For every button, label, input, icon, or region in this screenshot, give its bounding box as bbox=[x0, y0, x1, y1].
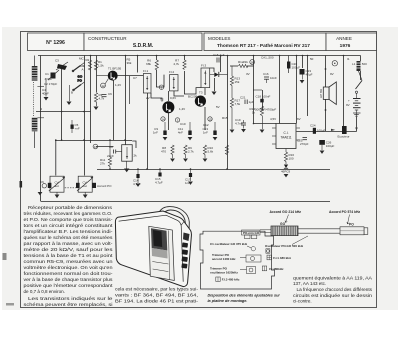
svg-text:2V: 2V bbox=[146, 96, 150, 100]
svg-text:C6: C6 bbox=[40, 180, 44, 184]
svg-text:de 0,7 à 0,8 environ.: de 0,7 à 0,8 environ. bbox=[24, 289, 65, 294]
svg-text:N° 1296: N° 1296 bbox=[46, 40, 65, 46]
svg-text:S.D.R.M.: S.D.R.M. bbox=[133, 43, 154, 49]
capacitor C5 bbox=[41, 107, 80, 133]
svg-text:50: 50 bbox=[310, 57, 314, 61]
wire vertical x96 bbox=[96, 56, 98, 93]
label trimmer PO oscillateur bbox=[210, 267, 256, 275]
diode 46PC9 bbox=[281, 162, 291, 174]
svg-text:4,7pF: 4,7pF bbox=[45, 77, 53, 81]
wire t1 collector to FI1 bbox=[118, 75, 144, 77]
radio tuning window bbox=[149, 226, 175, 280]
svg-text:schéma peuvent être remplacés,: schéma peuvent être remplacés, si bbox=[24, 302, 113, 307]
potentiometer P1 bbox=[122, 145, 137, 162]
svg-text:circuits est indiquée sur le d: circuits est indiquée sur le dessin bbox=[293, 293, 373, 298]
capacitor C24 bbox=[310, 124, 326, 134]
svg-text:PO: PO bbox=[349, 223, 354, 227]
ground under C23 bbox=[300, 80, 305, 83]
svg-text:Oscillateur PO.GO 500 kHz: Oscillateur PO.GO 500 kHz bbox=[265, 244, 304, 248]
svg-text:quement équivalente à AA 119,: quement équivalente à AA 119, AA bbox=[293, 275, 373, 280]
rod coil GO bbox=[271, 222, 298, 236]
svg-text:C6: C6 bbox=[108, 92, 112, 96]
capacitor C21 bbox=[240, 96, 254, 105]
resistor R1 bbox=[94, 60, 104, 70]
svg-text:39k: 39k bbox=[80, 64, 85, 68]
svg-text:R15: R15 bbox=[222, 116, 228, 120]
wire ic input line bbox=[254, 123, 277, 125]
wire volume to C8 bbox=[132, 141, 136, 148]
wire vertical x184 bbox=[184, 56, 186, 61]
svg-text:très réduites, recevant les ga: très réduites, recevant les gammes G.O. bbox=[24, 211, 113, 216]
radio cabinet drawing bbox=[115, 211, 191, 287]
wire detector line bbox=[96, 146, 114, 148]
wire vertical x325 speaker bbox=[325, 56, 327, 132]
resistor R8 bbox=[161, 145, 174, 158]
wire FI1 to T2 bbox=[151, 93, 162, 102]
ground under C13 bbox=[213, 137, 218, 140]
switch I1 bbox=[355, 81, 362, 94]
svg-text:L1: L1 bbox=[352, 62, 356, 66]
svg-text:C3: C3 bbox=[55, 59, 59, 63]
label PO min GO bbox=[242, 230, 261, 239]
svg-text:100µF: 100µF bbox=[317, 129, 326, 133]
diode D1 bbox=[210, 72, 228, 77]
resistor R13 bbox=[230, 66, 240, 86]
wire T1 collector branch bbox=[129, 76, 131, 104]
node N test point bbox=[332, 61, 337, 66]
svg-text:9V: 9V bbox=[346, 103, 350, 107]
title block text N 1296 bbox=[46, 36, 352, 49]
svg-text:5V: 5V bbox=[216, 105, 220, 109]
svg-text:TAA611: TAA611 bbox=[280, 136, 291, 140]
switch A bbox=[72, 57, 84, 72]
svg-text:C21: C21 bbox=[240, 96, 246, 100]
ground under CV2 bbox=[83, 192, 88, 198]
svg-text:oscillateur 1625kHz: oscillateur 1625kHz bbox=[210, 270, 238, 274]
svg-text:voltmètre électronique. On voi: voltmètre électronique. On voit qu'en bbox=[24, 265, 114, 270]
svg-text:positive que l'émetteur corres: positive que l'émetteur correspondant bbox=[24, 283, 114, 288]
svg-text:acc: acc bbox=[55, 184, 60, 188]
svg-text:68k: 68k bbox=[146, 62, 151, 66]
svg-text:100: 100 bbox=[289, 157, 294, 161]
svg-text:par rapport à la masse, avec u: par rapport à la masse, avec un volt- bbox=[24, 241, 114, 246]
paragraph column 2 bbox=[115, 287, 199, 304]
svg-text:Accord PO: Accord PO bbox=[97, 184, 112, 188]
resistor R17 bbox=[230, 86, 240, 130]
stray value labels bbox=[42, 57, 350, 127]
junction dot speaker bottom bbox=[325, 109, 327, 111]
ground under D1 bbox=[212, 92, 217, 96]
trimmer capacitor C3 bbox=[56, 62, 68, 70]
ground under R14 bbox=[260, 130, 265, 133]
svg-text:22k: 22k bbox=[243, 60, 248, 64]
ground under C14 bbox=[136, 184, 141, 187]
svg-text:4,5V: 4,5V bbox=[270, 117, 276, 121]
wire vertical x307 bbox=[307, 56, 309, 117]
earphone jack bbox=[338, 126, 350, 139]
tuning gang CV1 bbox=[40, 176, 65, 192]
node 13 test point bbox=[93, 144, 98, 149]
paragraph right column bbox=[293, 275, 373, 303]
wire vertical x279 bbox=[279, 56, 281, 124]
svg-text:Ecouteur: Ecouteur bbox=[338, 135, 350, 139]
svg-text:accord 1400 kHz: accord 1400 kHz bbox=[212, 257, 236, 261]
wire C4 branch bbox=[45, 78, 47, 97]
svg-text:1976: 1976 bbox=[340, 43, 351, 49]
ground under C9 bbox=[163, 137, 168, 140]
IC amplifier TAA611 bbox=[272, 124, 300, 153]
title block boxes bbox=[28, 33, 377, 51]
wire vertical x227 bbox=[227, 56, 229, 170]
junction dots buses bbox=[55, 111, 344, 170]
svg-text:C18 100nF: C18 100nF bbox=[256, 95, 271, 99]
gang dashed link bbox=[65, 187, 77, 189]
svg-text:CONSTRUCTEUR: CONSTRUCTEUR bbox=[88, 36, 127, 41]
paragraph column 1 bbox=[24, 205, 114, 307]
ground battery bbox=[353, 113, 361, 116]
svg-text:4,7nF: 4,7nF bbox=[235, 122, 243, 126]
wire rod left link bbox=[260, 230, 271, 233]
antenna coil L2 top half bbox=[32, 56, 38, 82]
antenna coil L2 bottom half bbox=[32, 118, 38, 132]
sheet frame bbox=[21, 32, 377, 308]
transistor T3 bbox=[188, 91, 206, 107]
capacitor C18 bbox=[256, 95, 271, 103]
wire output line bbox=[297, 131, 357, 133]
svg-text:1,4V: 1,4V bbox=[179, 107, 185, 111]
svg-text:FI.3: FI.3 bbox=[201, 64, 206, 68]
svg-text:16: 16 bbox=[251, 60, 255, 64]
wire vertical x125 bbox=[125, 56, 127, 145]
wire vertical x205 FI3-T3 bbox=[204, 88, 206, 95]
wire vertical x220 bbox=[220, 56, 222, 73]
wire T1 base bbox=[97, 75, 108, 77]
electrolytic C23 bbox=[300, 69, 313, 80]
ferrite rod bbox=[298, 228, 368, 235]
label oscillateur PO GO bbox=[265, 244, 304, 253]
wire C16 link bbox=[253, 89, 262, 91]
svg-text:la platine de montage.: la platine de montage. bbox=[208, 299, 248, 303]
electrolytic C26 bbox=[319, 140, 334, 150]
switch B bbox=[71, 75, 83, 95]
svg-text:C.I.: C.I. bbox=[284, 131, 289, 135]
wire pot to ground bbox=[126, 161, 128, 168]
svg-text:C1 oscillateur GO 375 kHz: C1 oscillateur GO 375 kHz bbox=[210, 242, 248, 246]
svg-text:tensions à la base de T1 et au: tensions à la base de T1 et au point bbox=[24, 253, 114, 258]
ground under C17 bbox=[188, 182, 193, 185]
svg-text:l'amplificateur B.F. Les tensi: l'amplificateur B.F. Les tensions indi- bbox=[24, 229, 114, 234]
svg-text:15: 15 bbox=[208, 117, 212, 121]
wire left rail vertical bbox=[40, 56, 42, 202]
svg-text:CA1_500: CA1_500 bbox=[261, 56, 274, 60]
ground under P1 bbox=[124, 169, 129, 173]
wire switch B stub bbox=[81, 82, 85, 85]
speaker HP bbox=[319, 82, 336, 105]
svg-text:3V: 3V bbox=[246, 72, 250, 76]
ground node2 bbox=[67, 102, 72, 106]
label FI2 bbox=[262, 266, 284, 271]
label accord GO bbox=[270, 210, 302, 222]
capacitor C14 branch bbox=[133, 169, 141, 186]
label C1 oscillateur bbox=[210, 242, 256, 251]
radio side thumbwheels bbox=[181, 242, 188, 268]
svg-text:BC208: BC208 bbox=[188, 95, 198, 99]
svg-text:Accord GO 214 kHz: Accord GO 214 kHz bbox=[270, 210, 302, 214]
svg-text:4,7k: 4,7k bbox=[173, 62, 179, 66]
wire vertical x56 bbox=[55, 140, 57, 176]
svg-text:BF 194. La diode 46 P1 est pra: BF 194. La diode 46 P1 est prati- bbox=[115, 299, 199, 304]
svg-text:F.I.1 480 kHz: F.I.1 480 kHz bbox=[273, 256, 291, 260]
wire volume feed rail bbox=[55, 140, 132, 142]
svg-text:HP 8Ω: HP 8Ω bbox=[319, 88, 323, 98]
svg-text:FI.1: FI.1 bbox=[143, 69, 148, 73]
junction dot speaker top bbox=[325, 68, 327, 70]
resistor R9 bbox=[184, 145, 194, 158]
svg-text:27k: 27k bbox=[100, 162, 105, 166]
node 16 test point bbox=[250, 56, 274, 65]
leader oscillateur PO GO bbox=[292, 236, 308, 245]
capacitor C11 branch bbox=[178, 122, 192, 135]
ground under C26 bbox=[320, 151, 325, 154]
wire battery down bbox=[356, 117, 358, 132]
svg-text:1nF: 1nF bbox=[153, 131, 158, 135]
svg-text:FI.2: FI.2 bbox=[169, 70, 174, 74]
svg-text:470: 470 bbox=[161, 150, 166, 154]
page stray mark 1 bbox=[3, 253, 7, 260]
trimmer capacitor C1 bbox=[44, 70, 59, 86]
svg-text:T1 BF195: T1 BF195 bbox=[108, 67, 122, 71]
svg-text:Récepteur portable de dimensio: Récepteur portable de dimensions bbox=[28, 205, 113, 210]
svg-text:Les transistors indiqués sur l: Les transistors indiqués sur le bbox=[28, 296, 113, 301]
ground under R17 bbox=[230, 130, 235, 133]
IF transformer FI.3 bbox=[201, 64, 210, 88]
electrolytic C20 bbox=[287, 56, 300, 74]
pcb caption bbox=[208, 294, 281, 303]
node 14 test point bbox=[161, 117, 165, 122]
node 12 test point bbox=[101, 79, 109, 89]
svg-text:137, AA 143 etc.: 137, AA 143 etc. bbox=[293, 281, 326, 286]
svg-text:2,7k: 2,7k bbox=[188, 150, 194, 154]
wire switch A stub bbox=[81, 63, 85, 66]
resistor R11 bbox=[100, 140, 112, 169]
capacitor C13 branch bbox=[202, 122, 216, 135]
svg-text:R2: R2 bbox=[86, 58, 90, 62]
ground under CV1 bbox=[55, 192, 60, 198]
svg-text:Disposition des éléments ajust: Disposition des éléments ajustables sur bbox=[208, 294, 281, 298]
capacitor C15 bbox=[213, 53, 225, 63]
node 3 test point bbox=[175, 118, 179, 123]
radio handle strap bbox=[158, 207, 190, 235]
resistor R3 bbox=[94, 93, 104, 107]
svg-text:4,7µF: 4,7µF bbox=[155, 181, 163, 185]
transistor T2 bbox=[160, 98, 174, 114]
svg-text:mètre de 20 kΩ/V, sauf pour le: mètre de 20 kΩ/V, sauf pour les bbox=[24, 247, 114, 252]
svg-text:12: 12 bbox=[101, 84, 105, 88]
IF transformer FI.1 bbox=[143, 69, 151, 93]
svg-text:A: A bbox=[82, 68, 84, 72]
svg-text:vants : BF 364, BF 494, BF 164: vants : BF 364, BF 494, BF 164, bbox=[115, 293, 198, 298]
svg-text:C16: C16 bbox=[263, 72, 269, 76]
wire L1 to switch bbox=[359, 71, 363, 81]
ground under C19 bbox=[241, 129, 246, 132]
svg-text:1nF: 1nF bbox=[203, 131, 208, 135]
svg-text:quées sur le schéma ont été me: quées sur le schéma ont été mesurées bbox=[24, 235, 114, 240]
svg-text:+: + bbox=[348, 99, 350, 103]
rod coil PO bbox=[340, 223, 364, 235]
svg-text:5,6k: 5,6k bbox=[208, 150, 214, 154]
svg-text:6V: 6V bbox=[297, 117, 301, 121]
svg-text:7,5k: 7,5k bbox=[235, 102, 241, 106]
svg-text:C15 1µF: C15 1µF bbox=[213, 53, 225, 57]
wire vertical x262 bbox=[262, 90, 264, 110]
wire vertical x302 C23 feed bbox=[302, 56, 304, 69]
junction arrow output wire bbox=[331, 129, 335, 131]
svg-text:15k: 15k bbox=[235, 80, 240, 84]
svg-text:500: 500 bbox=[362, 62, 367, 66]
ground under diode bbox=[284, 174, 289, 177]
ground under R10 bbox=[203, 159, 208, 162]
page stray mark 2 bbox=[6, 303, 14, 306]
ground under C11 bbox=[188, 137, 193, 140]
svg-text:commun R5-C9, mesurées avec un: commun R5-C9, mesurées avec un bbox=[24, 259, 114, 264]
label FI1 bbox=[267, 255, 291, 260]
svg-text:Thomson RT 217 - Pathé Marconi: Thomson RT 217 - Pathé Marconi RV 217 bbox=[217, 43, 310, 49]
ground under R3 bbox=[94, 107, 99, 111]
svg-text:T2: T2 bbox=[160, 98, 164, 102]
wire vertical x168 T2 chain bbox=[168, 91, 170, 101]
PCB layout outline bbox=[200, 231, 275, 289]
svg-text:2k: 2k bbox=[134, 154, 138, 158]
svg-text:1µF: 1µF bbox=[249, 100, 254, 104]
wire vertical x253 bbox=[253, 56, 255, 124]
ground under C4 bbox=[44, 97, 49, 101]
wire vertical x90 bbox=[90, 56, 92, 144]
svg-text:10nF: 10nF bbox=[270, 76, 277, 80]
svg-text:C1: C1 bbox=[45, 72, 49, 76]
svg-text:et P.O. Ne comporte que trois: et P.O. Ne comporte que trois transis- bbox=[24, 217, 114, 222]
wire vertical x343 output bbox=[343, 56, 345, 132]
battery 9V bbox=[346, 93, 361, 117]
resistor R12 bbox=[238, 60, 248, 68]
svg-text:PO: PO bbox=[78, 79, 83, 83]
IF transformer FI.2 bbox=[169, 70, 178, 91]
ground under R8 bbox=[170, 159, 175, 162]
wire FI3 feed bbox=[184, 88, 201, 94]
svg-text:14: 14 bbox=[161, 117, 165, 121]
svg-text:ci-contre.: ci-contre. bbox=[293, 299, 312, 304]
frame tick mark bbox=[20, 181, 23, 188]
label FI3 bbox=[216, 277, 240, 282]
svg-text:C10: C10 bbox=[180, 122, 186, 126]
wire vertical x113 T1 drop bbox=[113, 80, 115, 140]
svg-text:La fréquence d'accord des diff: La fréquence d'accord des différents bbox=[297, 287, 373, 292]
junction dots top rail bbox=[90, 55, 345, 57]
label trimmer PO accord bbox=[212, 253, 261, 262]
svg-text:ver à la base de chaque transi: ver à la base de chaque transistor plus bbox=[24, 277, 114, 282]
ground left rail bbox=[38, 192, 43, 195]
capacitor C17 branch bbox=[185, 169, 192, 185]
svg-text:T3: T3 bbox=[199, 91, 203, 95]
wire FI3 top out bbox=[210, 68, 214, 72]
radio strap anchor bbox=[183, 233, 190, 242]
wire vertical x84 bbox=[84, 56, 86, 176]
ground under R9 bbox=[183, 159, 188, 162]
coil L1 bbox=[352, 61, 367, 71]
svg-text:fonctionnement normal on doit: fonctionnement normal on doit trou- bbox=[24, 271, 114, 276]
svg-text:MODELES: MODELES bbox=[208, 36, 230, 41]
wire battery arrow bbox=[355, 128, 358, 131]
svg-text:100µF: 100µF bbox=[292, 66, 301, 70]
capacitor C6 bbox=[102, 95, 107, 97]
svg-text:F.I.3 480 kHz: F.I.3 480 kHz bbox=[222, 278, 240, 282]
svg-text:Accord PO 574 kHz: Accord PO 574 kHz bbox=[329, 210, 360, 214]
resistor R10 bbox=[203, 145, 213, 158]
svg-text:39k: 39k bbox=[127, 61, 132, 65]
svg-text:ANNEE: ANNEE bbox=[336, 36, 352, 41]
wire vertical x360 battery bbox=[360, 56, 362, 62]
svg-text:1,5k: 1,5k bbox=[98, 64, 104, 68]
svg-text:+nF: +nF bbox=[75, 127, 80, 131]
wire vertical x147 FI1 to bus bbox=[147, 93, 149, 169]
wire vertical x156 bbox=[156, 56, 158, 61]
resistor R6 bbox=[146, 59, 158, 70]
wire vertical x214 diode drop bbox=[214, 78, 216, 91]
label accord PO bbox=[329, 210, 360, 224]
wire mid ground bus bbox=[97, 169, 330, 171]
svg-text:C7: C7 bbox=[133, 76, 137, 80]
svg-text:PO-min GO: PO-min GO bbox=[243, 231, 260, 235]
wire FI2 out bbox=[174, 91, 184, 96]
svg-text:C24: C24 bbox=[310, 124, 316, 128]
ferrite rod dotted line bbox=[33, 82, 35, 117]
svg-text:cela est nécessaire, par les t: cela est nécessaire, par les types sui- bbox=[115, 287, 199, 292]
capacitor C8 bbox=[107, 145, 122, 158]
svg-text:13: 13 bbox=[94, 145, 98, 149]
capacitor C9 branch bbox=[153, 122, 167, 135]
svg-text:F.I 480kHz: F.I 480kHz bbox=[269, 267, 284, 271]
svg-text:100µF: 100µF bbox=[326, 144, 335, 148]
capacitor C15b branch bbox=[155, 169, 163, 185]
svg-text:9V: 9V bbox=[330, 72, 334, 76]
wire bottom rail bbox=[41, 201, 331, 203]
resistor R14 bbox=[249, 106, 263, 129]
svg-text:tors et un circuit intégré con: tors et un circuit intégré constituant bbox=[24, 223, 114, 228]
node 1 test point bbox=[159, 85, 163, 90]
transistor T1 bbox=[108, 67, 122, 81]
resistor R16 bbox=[284, 152, 294, 162]
svg-text:GO: GO bbox=[280, 222, 286, 226]
svg-text:40µF: 40µF bbox=[306, 73, 313, 77]
svg-text:40pF: 40pF bbox=[42, 92, 49, 96]
svg-text:4nF: 4nF bbox=[178, 131, 183, 135]
capacitor C25 bbox=[297, 138, 309, 147]
resistor R7 bbox=[173, 59, 186, 70]
svg-text:270pF: 270pF bbox=[300, 142, 309, 146]
node 15 test point bbox=[208, 117, 212, 122]
wire left secondary rail bbox=[36, 111, 91, 113]
resistor R2 bbox=[80, 60, 91, 70]
capacitor C16 bbox=[263, 72, 277, 83]
svg-text:C12: C12 bbox=[203, 123, 209, 127]
svg-text:C8: C8 bbox=[109, 145, 113, 149]
wire vertical x296 bbox=[296, 56, 298, 124]
wire vertical x137 FI1 feed bbox=[137, 56, 139, 73]
svg-text:1,2V: 1,2V bbox=[115, 83, 121, 87]
svg-text:B: B bbox=[71, 91, 73, 95]
wire switch B drop bbox=[69, 85, 71, 101]
tuning gang CV2 bbox=[76, 176, 112, 192]
resistor R15 bbox=[225, 145, 228, 155]
